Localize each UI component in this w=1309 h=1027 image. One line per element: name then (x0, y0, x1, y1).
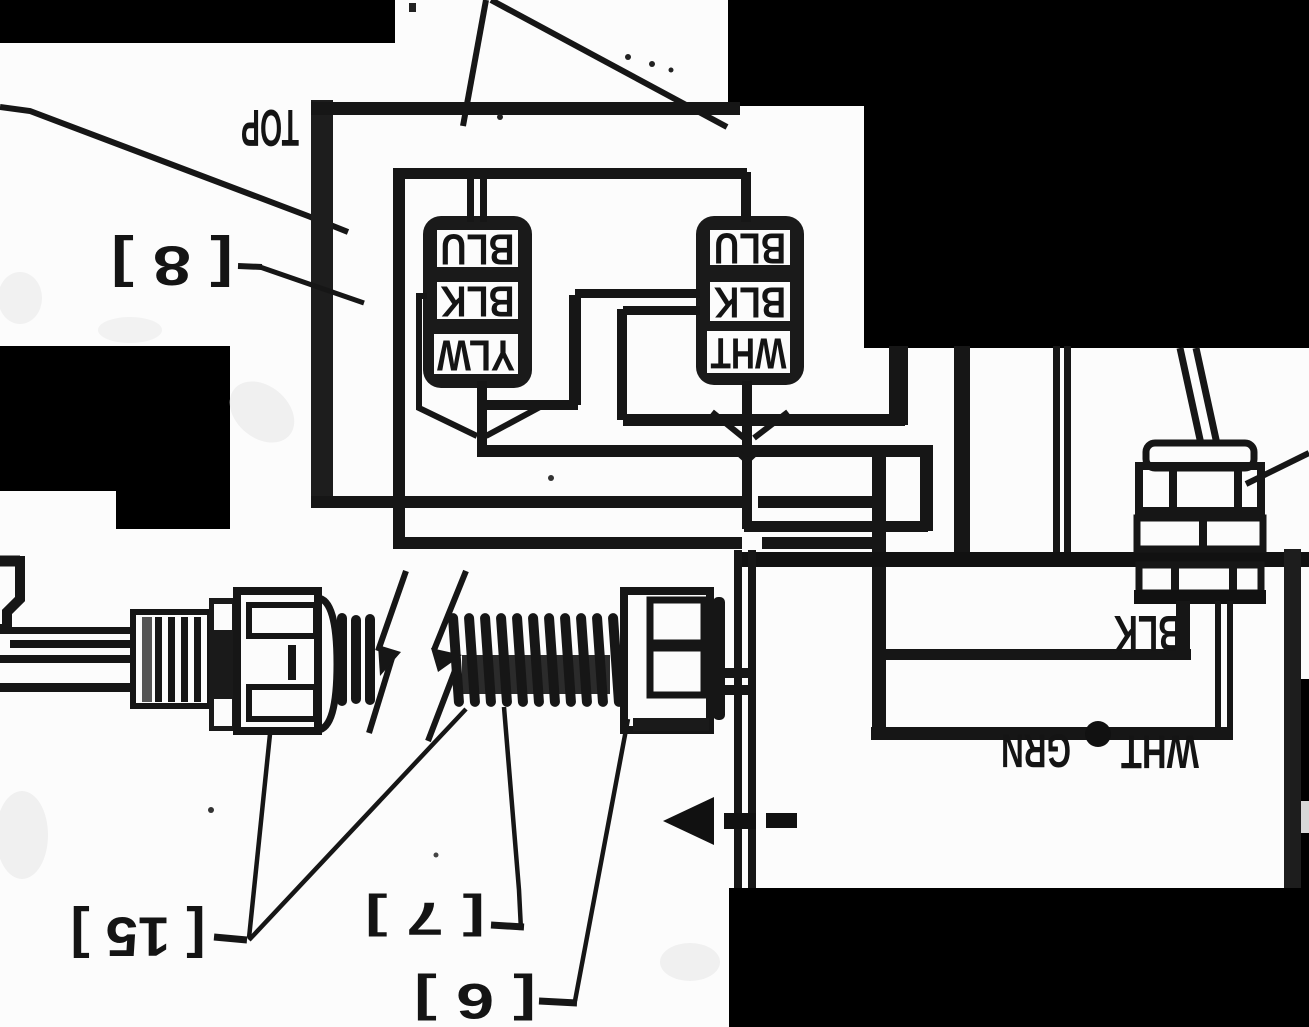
coil right connector boot rib (713, 597, 725, 720)
leader (7) (504, 707, 521, 930)
wire V1 up into black (889, 346, 908, 425)
svg-text:BLK: BLK (1114, 605, 1182, 661)
connector C1 body (423, 216, 532, 388)
wire J4 vertical (920, 449, 933, 531)
svg-text:TOP: TOP (241, 98, 299, 156)
wire L-inner into C2 (623, 306, 700, 315)
scanner black sliver right edge (1301, 679, 1309, 801)
leader (8) end stub (260, 267, 364, 303)
wire J3 horizontal y451 (477, 445, 933, 457)
outer box left bar (311, 100, 333, 508)
wire C2 top (741, 172, 751, 222)
gland feed wires from black region (1180, 348, 1201, 444)
connector C2 body (696, 216, 804, 385)
wire vertical x876 (872, 451, 886, 740)
scanner black region mid-left (0, 346, 230, 529)
svg-text:BLU: BLU (714, 224, 786, 273)
gland row2 (1137, 518, 1263, 549)
wire J5 horizontal y526 (744, 521, 928, 532)
cable lower tube (0, 655, 133, 663)
wire J1 horizontal y420 (623, 414, 905, 426)
scanner black region top-right main (864, 100, 1309, 348)
connector C2 pin BLK (710, 282, 790, 321)
connector C1 pin YLW (434, 334, 518, 374)
gland leader from page edge (1246, 453, 1309, 484)
wire C1 funnel right wing (486, 407, 540, 436)
outer box top edge (311, 102, 740, 115)
mount hook bracket (0, 556, 20, 567)
svg-text:YLW: YLW (437, 331, 515, 380)
wire C2 bottom (742, 381, 752, 529)
ribbed boot cylinder (133, 612, 210, 706)
wire vertical x623 (617, 309, 627, 420)
svg-text:[ 15 ]: [ 15 ] (71, 906, 206, 969)
connector C1 pin BLK (437, 282, 518, 319)
leader (6) (575, 719, 628, 1001)
gland bottom bar (1134, 590, 1266, 604)
scanner black region bottom (729, 888, 1309, 1027)
gland left drop wire (1176, 601, 1190, 656)
outer box bottom edge (311, 496, 745, 508)
cable upper tube (8, 627, 133, 634)
cable stubs to harness (710, 668, 750, 678)
gland right drop wires (1215, 601, 1221, 734)
inner box bottom edge (397, 537, 742, 549)
connector C1 pin BLU (437, 230, 518, 267)
connector P body (237, 591, 318, 731)
boot ribs (337, 613, 347, 706)
gland row3 (1139, 565, 1261, 593)
svg-text:[ 6 ]: [ 6 ] (414, 973, 536, 1027)
svg-text:[ 7 ]: [ 7 ] (365, 893, 485, 945)
coil spring cable (462, 655, 610, 694)
cable break bolt B (434, 571, 466, 650)
direction arrow (663, 797, 714, 845)
coil right connector body (624, 591, 710, 730)
gland cap (1146, 443, 1254, 468)
scan smudge (218, 369, 307, 455)
wire C1 left branch (419, 296, 477, 436)
wire C1 top pair (467, 174, 474, 222)
cable break bolt A (378, 571, 406, 651)
connector P nose (318, 598, 337, 730)
main harness H line (737, 552, 1309, 567)
speck near black edge (409, 3, 416, 12)
connector P left cap (209, 598, 237, 731)
leader line vertical from hidden label (463, 0, 486, 126)
vertical harness drop V_mid (734, 550, 742, 888)
svg-text:WHT: WHT (710, 329, 786, 378)
svg-text:BLK: BLK (714, 278, 786, 327)
gland row1 (1139, 466, 1261, 511)
scanner black region top-left (0, 0, 395, 43)
scanner black region top-right upper (728, 0, 1309, 106)
right box top edge (886, 649, 1191, 660)
leader line diagonal from hidden label (491, 0, 727, 127)
svg-text:BLU: BLU (441, 225, 515, 274)
gray notch right edge (1301, 801, 1309, 833)
junction dot (1085, 721, 1111, 747)
svg-text:WHT: WHT (1121, 726, 1199, 779)
speck (548, 475, 554, 481)
leader line to outer box (from page edge) (0, 107, 348, 232)
connector C2 pin BLU (710, 230, 790, 265)
svg-text:BLK: BLK (440, 277, 514, 326)
wire C2 funnel wings (712, 412, 744, 438)
wire L1 into C2 (575, 289, 700, 298)
wire hop notch at J3 crossing (733, 448, 761, 461)
leader (15) to coil (249, 709, 466, 940)
svg-text:GRN: GRN (1001, 725, 1071, 778)
leader (15) to connector (249, 734, 270, 938)
wire L2 vertical (569, 295, 581, 405)
wire V2 vertical (954, 346, 970, 556)
svg-text:[ 8 ]: [ 8 ] (111, 235, 233, 298)
wire L3 horizontal (481, 400, 578, 410)
right edge bar (1284, 549, 1301, 888)
speck dots along diagonal (625, 54, 631, 60)
wire C1 bottom (477, 381, 487, 454)
connector C2 pin WHT (707, 331, 790, 373)
right box bottom edge (871, 727, 1233, 740)
wire V3 vertical pair (1053, 346, 1060, 556)
inner box top edge / wire to connectors (393, 168, 747, 179)
inner box left edge (393, 168, 405, 549)
